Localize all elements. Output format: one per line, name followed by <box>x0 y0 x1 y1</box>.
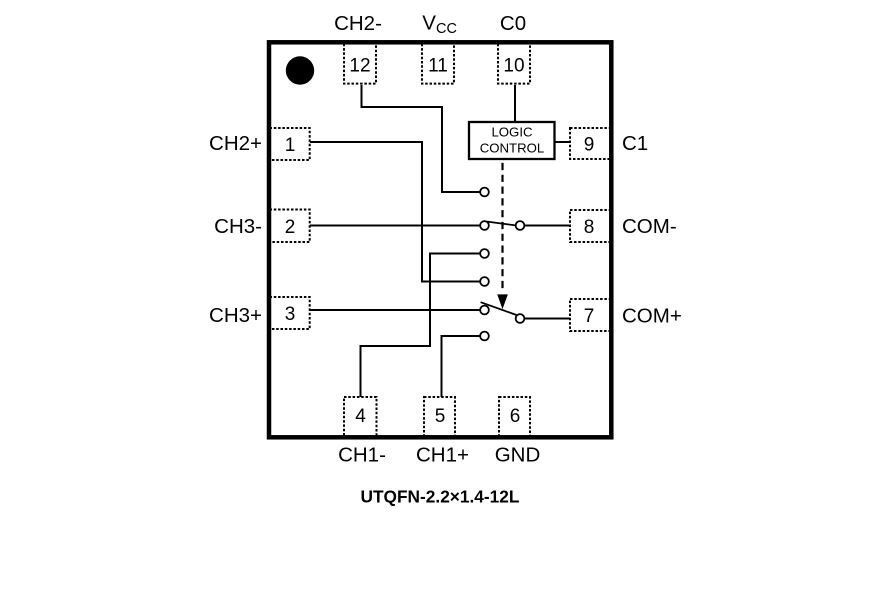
switch arm S1 (COM-) <box>487 222 515 226</box>
throw contact circle CH1- <box>480 249 489 258</box>
throw contact circle CH2+ <box>480 277 489 286</box>
pin 6 pad <box>499 397 530 438</box>
common contact circle COM- <box>516 221 525 230</box>
wire pin5 to throw contact CH1+ <box>442 336 481 397</box>
logic control select line (dashed arrow) <box>498 160 507 308</box>
pin 2 pad <box>270 210 310 243</box>
pole contact circle CH3+ <box>480 306 489 315</box>
pin 3 pad <box>270 297 310 329</box>
pin 4 pad <box>344 397 377 438</box>
svg-text:6: 6 <box>510 406 521 427</box>
svg-text:7: 7 <box>584 306 595 327</box>
pin 10 pad <box>498 43 530 84</box>
pin 5 pad <box>424 397 455 438</box>
svg-text:11: 11 <box>428 56 448 77</box>
svg-text:3: 3 <box>285 304 296 325</box>
svg-text:COM-: COM- <box>622 215 677 238</box>
IC package body U1 <box>269 42 611 437</box>
svg-text:1: 1 <box>285 135 296 156</box>
svg-text:CH2+: CH2+ <box>209 132 262 155</box>
svg-text:CH1-: CH1- <box>338 444 386 467</box>
svg-text:10: 10 <box>503 56 524 77</box>
throw contact circle CH1+ <box>480 332 489 341</box>
logic control block U2 <box>469 122 555 159</box>
pin 1 pad <box>270 128 310 160</box>
svg-text:12: 12 <box>349 56 370 77</box>
svg-text:CH3+: CH3+ <box>209 304 262 327</box>
pin 11 pad <box>422 43 454 84</box>
svg-text:COM+: COM+ <box>622 304 682 327</box>
wire logic control to pin 9 <box>555 141 570 143</box>
svg-text:CH3-: CH3- <box>214 215 262 238</box>
svg-text:9: 9 <box>584 135 595 156</box>
svg-text:C1: C1 <box>622 132 648 155</box>
wire pin1 to throw contact CH2+ <box>310 142 481 282</box>
svg-text:5: 5 <box>435 406 446 427</box>
svg-text:C0: C0 <box>500 12 526 35</box>
pin-1 index marker dot <box>286 56 314 84</box>
wire pin10 to logic control <box>514 85 516 122</box>
svg-text:GND: GND <box>495 444 541 467</box>
wire COM- contact to pin 8 <box>524 225 570 227</box>
svg-text:CH1+: CH1+ <box>416 444 469 467</box>
wire COM+ contact to pin 7 <box>524 318 570 320</box>
svg-text:LOGIC: LOGIC <box>491 125 533 140</box>
svg-text:CONTROL: CONTROL <box>480 141 544 156</box>
wire pin3 to switch pole CH3+ <box>310 309 481 311</box>
pin 7 pad <box>570 299 611 331</box>
svg-text:CH2-: CH2- <box>334 12 382 35</box>
pin 12 pad <box>344 43 376 84</box>
svg-text:4: 4 <box>355 406 366 427</box>
pole contact circle CH3- <box>480 221 489 230</box>
common contact circle COM+ <box>516 314 525 323</box>
wire pin4 to throw contact CH1- <box>361 254 481 398</box>
throw contact circle CH2- <box>480 188 489 197</box>
wire pin12 to throw contact CH2- <box>362 85 481 192</box>
svg-text:UTQFN-2.2×1.4-12L: UTQFN-2.2×1.4-12L <box>361 487 520 507</box>
wire pin2 to switch pole CH3- <box>310 225 481 227</box>
pin 8 pad <box>570 210 611 242</box>
svg-text:2: 2 <box>285 217 296 238</box>
switch arm S2 (COM+) <box>481 302 517 315</box>
pin 9 pad <box>570 128 611 159</box>
svg-text:8: 8 <box>584 217 595 238</box>
